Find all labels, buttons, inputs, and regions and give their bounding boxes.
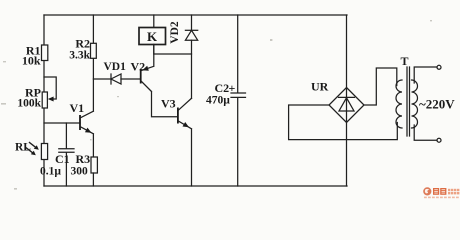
svg-text:K: K <box>147 29 158 44</box>
wire VD1 line left <box>93 78 111 80</box>
svg-text:~220V: ~220V <box>419 97 455 112</box>
svg-text:R3: R3 <box>76 152 91 166</box>
svg-text:C1: C1 <box>55 152 70 166</box>
svg-text:VD2: VD2 <box>169 21 181 44</box>
transistor V2 <box>140 69 142 84</box>
wire bridge AC left <box>289 105 398 140</box>
wire R2 branch top <box>92 15 94 43</box>
svg-text:+: + <box>229 81 236 95</box>
relay K <box>153 15 155 28</box>
capacitor C2 <box>231 15 246 186</box>
wire bridge AC right <box>364 68 397 105</box>
transformer core <box>407 67 410 136</box>
UR inner diode <box>339 88 355 122</box>
svg-text:RL: RL <box>15 142 31 154</box>
svg-text:V3: V3 <box>161 97 176 111</box>
wire primary top lead <box>414 67 437 83</box>
resistor R2 <box>91 43 97 58</box>
transistor V1 <box>79 115 81 130</box>
wire top rail <box>44 14 347 16</box>
wire RP wiper <box>44 77 56 99</box>
wire V1 base line <box>44 122 80 124</box>
diode VD2 <box>191 15 193 30</box>
wire K bottom junction <box>154 44 192 54</box>
capacitor C1 <box>59 123 74 186</box>
transistor V3 <box>177 108 179 124</box>
wire VD1 line right <box>121 78 140 80</box>
svg-text:3.3k: 3.3k <box>69 50 90 62</box>
photoresistor RL <box>41 144 47 160</box>
svg-text:C2: C2 <box>215 81 230 95</box>
svg-text:UR: UR <box>311 80 329 94</box>
resistor R3 <box>91 157 97 173</box>
wire bridge bottom <box>346 123 348 187</box>
svg-text:10k: 10k <box>22 54 41 68</box>
diode VD1 <box>110 74 112 84</box>
speckle noise <box>1 20 432 190</box>
svg-text:T: T <box>401 54 409 68</box>
svg-text:VD1: VD1 <box>104 61 127 73</box>
svg-text:R2: R2 <box>75 37 90 51</box>
wire R3 bottom <box>92 173 94 186</box>
terminal top <box>437 65 441 69</box>
RL light arrow 2 <box>27 148 34 154</box>
bridge rectifier UR <box>329 88 364 123</box>
svg-text:V2: V2 <box>131 60 146 74</box>
wire left rail <box>43 15 45 186</box>
RP wiper arrowhead <box>48 97 54 102</box>
wire bottom rail <box>44 185 347 187</box>
potentiometer RP <box>42 92 47 108</box>
svg-text:470µ: 470µ <box>206 95 230 107</box>
wire bridge feed top <box>346 15 348 88</box>
terminal bottom <box>437 138 441 142</box>
transformer T primary winding <box>412 80 418 128</box>
svg-text:V1: V1 <box>70 101 85 115</box>
svg-text:300: 300 <box>71 166 89 178</box>
watermark logo <box>423 187 459 198</box>
wire primary bottom lead <box>414 125 437 140</box>
RL light arrow 1 <box>30 143 37 149</box>
transformer T secondary winding <box>396 80 402 128</box>
svg-text:100k: 100k <box>17 98 41 110</box>
resistor R1 <box>42 45 48 61</box>
